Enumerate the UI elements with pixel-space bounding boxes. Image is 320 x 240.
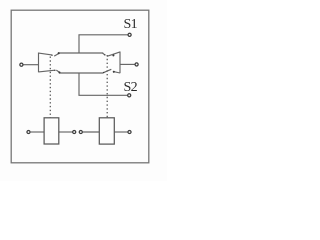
svg-text:S1: S1 xyxy=(124,17,138,32)
svg-text:S2: S2 xyxy=(124,80,138,95)
